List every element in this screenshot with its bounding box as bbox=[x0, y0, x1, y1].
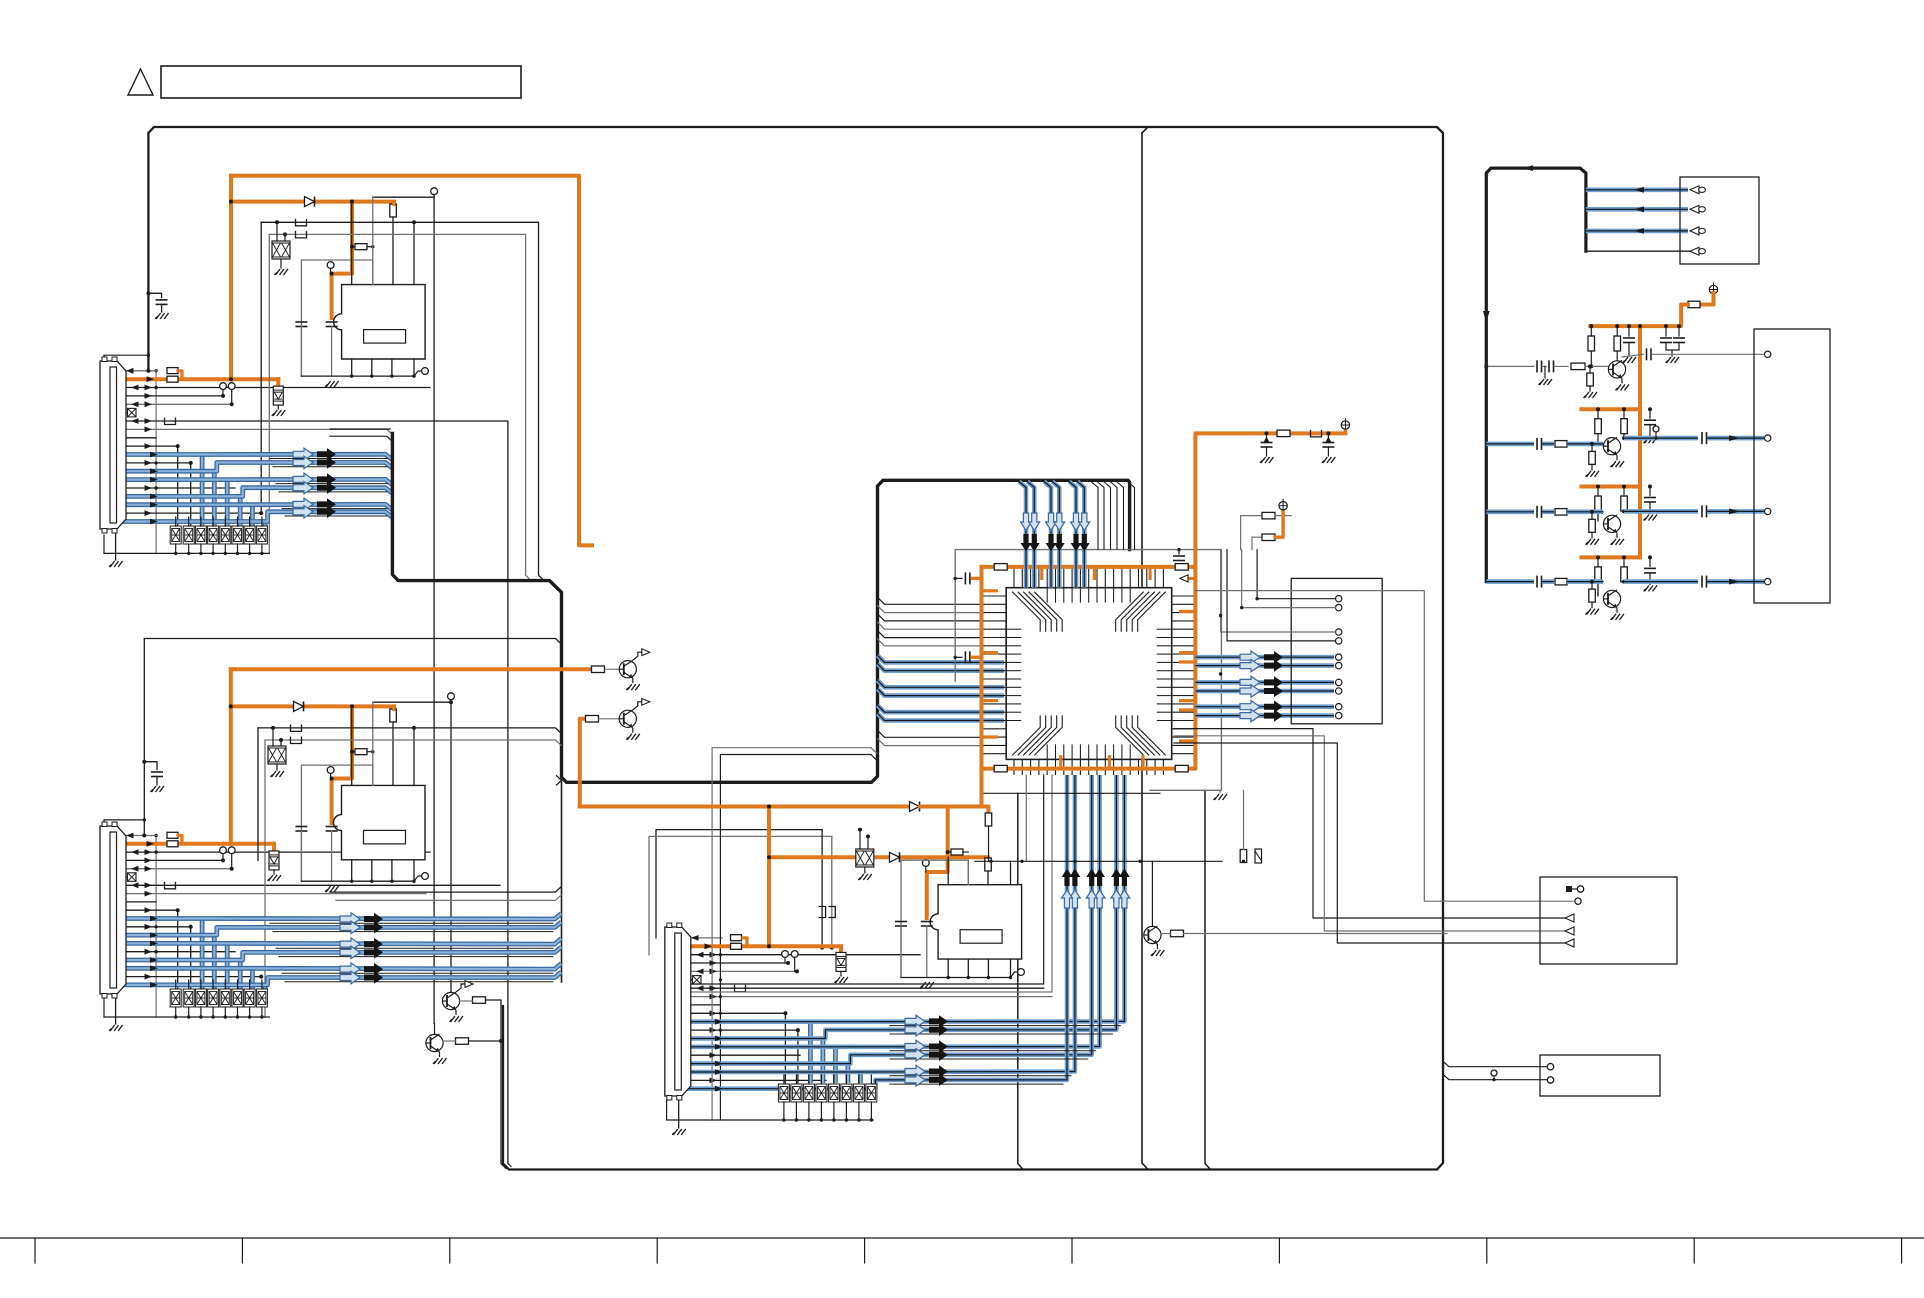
ground U3 bbox=[920, 982, 934, 988]
wire C row7 bbox=[682, 987, 1044, 989]
warning triangle symbol bbox=[128, 69, 153, 95]
protection array element PC4 bbox=[816, 1084, 827, 1102]
connector CN3 pin rows bbox=[677, 936, 680, 939]
U2 pin to orange junction bbox=[351, 706, 353, 785]
resistor R13 bbox=[456, 1038, 469, 1045]
orange wire VCC left drop bbox=[229, 176, 233, 380]
wire B row15 bbox=[117, 951, 236, 953]
bus arrow pair A5 bbox=[293, 498, 336, 510]
stage 2 bias rail bbox=[1582, 407, 1641, 411]
blue bus wire C5 to QFP bbox=[682, 775, 1075, 1072]
ground rail under connector C bbox=[679, 1119, 873, 1121]
protection array element PB1 bbox=[170, 989, 181, 1007]
resistor R11b bbox=[985, 813, 992, 826]
protection array element PB7 bbox=[244, 989, 255, 1007]
wire to R25 bbox=[1241, 515, 1262, 517]
bus arrow pair B5 bbox=[340, 963, 383, 975]
orange wire to IC3 bypass bbox=[927, 807, 948, 919]
blue bus right 1 bbox=[1195, 655, 1334, 660]
bus B2 drop bbox=[264, 740, 266, 1017]
orange wire C row2 run bbox=[743, 944, 841, 948]
ground C15 bbox=[1623, 357, 1637, 363]
orange jumper bbox=[1275, 510, 1283, 537]
note box bbox=[161, 66, 521, 98]
U4 corner pin fan BR bbox=[1116, 715, 1166, 755]
signal run to J3 pin2 bbox=[1174, 736, 1565, 931]
capacitor C19 bbox=[1549, 360, 1554, 372]
capacitor C8 bbox=[921, 922, 933, 927]
blue bus top 1 bbox=[1019, 482, 1026, 588]
wire C row5 bbox=[682, 970, 798, 972]
connector J5 box bbox=[1754, 329, 1830, 603]
resistor R46 bbox=[1595, 567, 1602, 582]
connector J3 pin bbox=[1565, 914, 1574, 922]
wire row10 to surge box1 bbox=[117, 446, 178, 526]
test point TP1 bbox=[327, 262, 334, 269]
harness wire to U4 left pin 8 bbox=[878, 739, 984, 746]
protection array element PC2 bbox=[791, 1084, 802, 1102]
blue drop to box C5 bbox=[833, 1047, 838, 1083]
protection array element PA7 bbox=[244, 526, 255, 544]
bus arrow vertical down bbox=[1029, 513, 1040, 552]
wire B row6 bbox=[117, 876, 128, 878]
bus arrow pair right 5 bbox=[1240, 701, 1283, 713]
resistor R11 bbox=[985, 858, 992, 871]
wire B row4 bbox=[117, 859, 224, 861]
test point TP11 bbox=[922, 860, 929, 867]
resistor R2 bbox=[167, 376, 178, 382]
wire B row5 bbox=[117, 868, 232, 870]
suppressor ground lead bbox=[277, 405, 279, 409]
U2 input frame wire bbox=[301, 765, 372, 881]
wire C row4 bbox=[682, 962, 789, 964]
ground bias stage2 bbox=[1586, 471, 1600, 477]
transistor Q14 bbox=[1603, 590, 1620, 613]
bus arrow vertical C4 bbox=[1086, 869, 1097, 909]
wire R14 to right bbox=[1184, 933, 1448, 935]
ferrite bead FB8 bbox=[828, 907, 835, 918]
U4 top pins bbox=[1014, 567, 1163, 588]
wire B row10 to box1 bbox=[117, 910, 178, 989]
ground stage1 bbox=[1539, 379, 1553, 385]
blue bus top 6 bbox=[1077, 482, 1084, 588]
ferrite bead FB10 bbox=[1311, 430, 1322, 437]
bus arrow pair C6 bbox=[905, 1074, 948, 1086]
harness wire to U4 left pin 6 bbox=[878, 639, 984, 646]
connector CN3 bbox=[665, 923, 691, 1100]
protection array element PB8 bbox=[256, 989, 267, 1007]
wire to R26 bbox=[1252, 536, 1262, 538]
U3 input frame wire bbox=[901, 860, 968, 977]
ruler tick 1 bbox=[34, 1238, 36, 1263]
connector top tab wire B bbox=[104, 819, 144, 821]
bus arrow vertical down bbox=[1079, 513, 1090, 552]
signal wire to J2 pin1 bbox=[1257, 550, 1335, 599]
bus arrow vertical down bbox=[1054, 513, 1065, 552]
signal wire to J2 pin2 bbox=[1242, 550, 1336, 608]
wire row8 into harness bbox=[117, 429, 393, 434]
capacitor C20 bbox=[1647, 348, 1652, 360]
harness blue wire to U4 left pin 3 bbox=[878, 680, 1005, 687]
U1 bottom pin bbox=[413, 359, 415, 376]
ruler tick 7 bbox=[1278, 1238, 1280, 1263]
capacitor C23 bbox=[1644, 498, 1656, 503]
connector CN1 pin rows bbox=[112, 369, 115, 372]
blue drop to box C8 bbox=[871, 1083, 876, 1089]
test point TP14 bbox=[1018, 969, 1025, 976]
test point TP10 bbox=[448, 693, 455, 700]
harness wire to U4 left pin 5 bbox=[878, 631, 984, 638]
outer enclosure border bbox=[148, 127, 1443, 1170]
enclosure divider corner B bbox=[1205, 790, 1211, 1169]
bus companion line bbox=[270, 458, 387, 460]
C2 lower lead bbox=[300, 327, 302, 377]
wire R12 to border bbox=[486, 1000, 507, 1169]
capacitor C30 bbox=[1702, 505, 1707, 517]
Q5 collector up to rail bbox=[1151, 861, 1153, 926]
connector J6 pin2 bbox=[1547, 1077, 1553, 1083]
orange wire B-to-C power run bbox=[580, 805, 909, 809]
U3 bottom pin bbox=[1010, 959, 1012, 977]
orange stub to R3 bbox=[392, 202, 395, 205]
harness line B black2 bbox=[336, 895, 561, 900]
bus line C2 vertical w/ bead bbox=[831, 836, 833, 947]
ground rail under connector B bbox=[104, 1016, 269, 1018]
ground bbox=[272, 410, 286, 416]
block C shield wire 2 bbox=[649, 836, 832, 954]
diode D4 bbox=[910, 802, 920, 812]
connector J2 pins bbox=[1336, 596, 1342, 719]
wire C row8 bbox=[682, 996, 1053, 998]
TP2 stub bbox=[222, 390, 224, 396]
power entry +B1 bbox=[1341, 418, 1349, 429]
harness wire to U4 left pin 1 bbox=[878, 597, 984, 604]
bus arrow pair A1 bbox=[293, 448, 336, 460]
bus arrow pair A2 bbox=[293, 456, 336, 468]
blue drop to surge box 4 bbox=[212, 471, 217, 526]
bus arrow vertical down bbox=[1071, 513, 1082, 552]
blue bus wire C6 to QFP bbox=[682, 775, 1068, 1089]
bias resistor stage2 bbox=[1589, 451, 1596, 464]
connector J3 pins bbox=[1566, 886, 1572, 892]
capacitor C6 bbox=[326, 827, 338, 832]
connector CN1 bbox=[100, 357, 126, 533]
connector J4 box bbox=[1680, 177, 1759, 264]
protection array element PC5 bbox=[828, 1084, 839, 1102]
orange drop to suppressor bbox=[276, 379, 280, 386]
blue bus wire B5 into harness bbox=[117, 964, 562, 970]
resistor R28 bbox=[1255, 849, 1262, 863]
blue bus right 5 bbox=[1195, 704, 1334, 709]
bus companion line bbox=[279, 956, 553, 958]
orange ring left drop bbox=[980, 567, 984, 807]
resistor R40 bbox=[1595, 419, 1602, 434]
protection array element PC8 bbox=[866, 1084, 877, 1102]
harness blue wire to U4 left pin 2 bbox=[878, 664, 1005, 671]
protection array element PC3 bbox=[803, 1084, 814, 1102]
QFP IC U4 body bbox=[1006, 588, 1171, 760]
orange drop to suppressor C bbox=[839, 946, 843, 952]
transistor Q2 bbox=[619, 698, 650, 732]
orange run to R11b bbox=[948, 807, 989, 814]
blue output stage2 bbox=[1624, 436, 1698, 441]
harness merge chevron bbox=[557, 776, 562, 785]
capacitor C13 bbox=[1261, 443, 1273, 448]
harness line B black1 bbox=[330, 887, 561, 892]
connector top tab wire bbox=[104, 354, 148, 356]
bus arrow vertical down bbox=[1021, 513, 1032, 552]
surge suppressor SA6 bbox=[856, 849, 874, 867]
bus line A1 into harness bbox=[261, 222, 544, 580]
resistor R43 bbox=[1595, 496, 1602, 511]
protection array element PA4 bbox=[208, 526, 219, 544]
wire row12 to surge box2 bbox=[117, 463, 191, 526]
U2 bottom pin bbox=[351, 860, 353, 881]
bus arrow pair B2 bbox=[340, 921, 383, 933]
bus arrow vertical C6 bbox=[1062, 869, 1073, 909]
test point TP7 bbox=[220, 847, 227, 854]
bus A1 drop to row18 bbox=[260, 222, 262, 513]
blue drop to box B5 bbox=[225, 943, 230, 989]
transistor Q12 bbox=[1603, 437, 1620, 460]
U1 ground rail bbox=[301, 375, 414, 377]
resistor R44 bbox=[1621, 496, 1628, 511]
blue bus wire B1 into harness bbox=[117, 914, 562, 920]
bus companion line bbox=[890, 1058, 1088, 1060]
capacitor C27 bbox=[1537, 576, 1542, 588]
wire R13 to junction bbox=[469, 1040, 502, 1042]
harness blue wire to U4 left pin 6 bbox=[878, 714, 1005, 721]
U4 bottom rail 1 bbox=[983, 792, 1160, 794]
blue input stage3 bbox=[1486, 509, 1534, 514]
test point TP3 bbox=[228, 383, 235, 390]
protection array element PB4 bbox=[208, 989, 219, 1007]
resistor R9 bbox=[731, 935, 742, 941]
wire B row18 bbox=[117, 976, 262, 978]
orange stub bbox=[392, 706, 395, 709]
blue bus right 4 bbox=[1195, 689, 1334, 694]
wire C row3 bbox=[682, 954, 921, 956]
ferrite bead FB5 bbox=[291, 724, 302, 731]
ferrite bead FB2 bbox=[296, 219, 307, 226]
U2 pin to bus line bbox=[413, 728, 415, 786]
harness blue wire to U4 left pin 4 bbox=[878, 689, 1005, 696]
ground R33b bbox=[1584, 392, 1598, 398]
diode D3 bbox=[890, 852, 900, 862]
harness wire to U4 left pin 2 bbox=[878, 606, 984, 613]
blue output stage3 bbox=[1624, 509, 1698, 514]
blue bus wire B4 into harness bbox=[117, 947, 562, 960]
protection array element PA6 bbox=[232, 526, 243, 544]
U3 ground rail bbox=[901, 977, 1011, 979]
connector CN2 bbox=[100, 822, 126, 998]
orange rail stage1 bbox=[1590, 305, 1688, 327]
ferrite bead FB4 bbox=[165, 882, 176, 889]
blue bus right 2 bbox=[1195, 663, 1334, 668]
bus arrow pair A6 bbox=[293, 506, 336, 518]
harness blue wire to U4 left pin 5 bbox=[878, 705, 1005, 712]
blue bus wire B6 into harness bbox=[117, 972, 562, 985]
protection array element PA5 bbox=[220, 526, 231, 544]
blue bus top 3 bbox=[1044, 482, 1051, 588]
capacitor C10 bbox=[965, 572, 970, 584]
resistor R11c bbox=[948, 851, 951, 853]
protection array element PA1 bbox=[170, 526, 181, 544]
ruler baseline bbox=[0, 1237, 1924, 1239]
bus arrow pair B4 bbox=[340, 946, 383, 958]
wire row4 bbox=[117, 395, 224, 397]
shield vertical wire bbox=[155, 371, 157, 554]
bus companion line bbox=[285, 981, 553, 983]
ground connector C bbox=[672, 1129, 686, 1135]
resistor R48 bbox=[1555, 578, 1567, 585]
bus arrow pair B3 bbox=[340, 938, 383, 950]
test point TP12 bbox=[782, 951, 789, 958]
capacitor C3 bbox=[326, 322, 338, 327]
U3 pin up to rail bbox=[1010, 861, 1012, 884]
bus companion line bbox=[890, 1033, 1112, 1035]
block B shield wire into harness bbox=[144, 639, 561, 645]
transistor Q1 bbox=[619, 649, 650, 683]
signal wire to J2 pin4 bbox=[1227, 550, 1336, 641]
ground connector B bbox=[109, 1025, 123, 1031]
TP3 stub bbox=[231, 390, 233, 405]
orange ring stubs bbox=[982, 567, 1196, 769]
U4 right pins bbox=[1172, 596, 1196, 754]
wire C row18 bbox=[682, 1079, 827, 1081]
U1 bottom pin bbox=[391, 359, 393, 376]
capacitor C18 bbox=[1537, 360, 1542, 372]
connector J6 box bbox=[1540, 1055, 1660, 1096]
resistor R1 bbox=[167, 368, 178, 374]
thick cable top right bbox=[1486, 168, 1586, 581]
U3 bottom pin bbox=[967, 959, 969, 977]
ground C13 bbox=[1260, 457, 1274, 463]
orange wire B left drop bbox=[229, 669, 233, 844]
harness wire to U4 left pin 7 bbox=[878, 730, 984, 737]
orange wire power filter bbox=[1195, 433, 1345, 567]
bus arrow vertical C1 bbox=[1119, 869, 1130, 909]
resistor R6 bbox=[390, 709, 397, 722]
ruler tick 5 bbox=[864, 1238, 866, 1263]
bus arrow pair right 6 bbox=[1240, 709, 1283, 721]
resistor R3 bbox=[390, 204, 397, 217]
orange wire C row2 bbox=[682, 944, 730, 948]
ruler tick 8 bbox=[1486, 1238, 1488, 1263]
blue bus wire B2 into harness bbox=[117, 922, 562, 935]
blue drop to box C4 bbox=[821, 1039, 826, 1083]
ruler tick 4 bbox=[656, 1238, 658, 1263]
blue bus right 3 bbox=[1195, 680, 1334, 685]
resistor R20 ring TL bbox=[994, 564, 1007, 571]
block B left wire bbox=[143, 639, 145, 836]
resistor R41 bbox=[1621, 419, 1628, 434]
connector J4 pin bbox=[1690, 186, 1699, 194]
U4 bottom rail 2 bbox=[975, 860, 1222, 862]
bus companion line bbox=[890, 1075, 1071, 1077]
blue bus wire B3 into harness bbox=[117, 939, 562, 945]
IC U2 regulator bbox=[334, 785, 426, 859]
bus arrow pair A3 bbox=[293, 473, 336, 485]
protection array element PC1 bbox=[778, 1084, 789, 1102]
U4 corner pin fan TR bbox=[1116, 592, 1166, 632]
blue bus right 6 bbox=[1195, 713, 1334, 718]
capacitor C11 bbox=[965, 651, 970, 663]
stage1 input wire bbox=[1486, 365, 1534, 367]
orange wire to IC bypass bbox=[332, 202, 352, 318]
surge absorber SA5 bbox=[836, 952, 846, 971]
blue line J4-3 bbox=[1586, 229, 1688, 234]
thermistor on B row6 bbox=[128, 873, 137, 882]
test point TP9 bbox=[422, 873, 429, 880]
ground bbox=[835, 977, 849, 983]
blue input stage2 bbox=[1486, 442, 1534, 447]
U1 bottom pin bbox=[371, 359, 373, 376]
blue drop to box B3 bbox=[200, 919, 205, 990]
ground stage3 bbox=[1644, 515, 1658, 521]
orange wire B post diode bbox=[305, 704, 394, 708]
wire row15 bbox=[117, 487, 236, 489]
harness line C1 to QFP bbox=[682, 775, 1044, 984]
bus companion line bbox=[279, 491, 387, 493]
bus arrow pair right 4 bbox=[1240, 685, 1283, 697]
blue drop to surge box 8 bbox=[263, 522, 268, 527]
test point stage2 bbox=[1653, 426, 1659, 432]
ferrite bead FB6 bbox=[291, 737, 302, 744]
diode D1 bbox=[305, 197, 315, 207]
capacitor C17 bbox=[1673, 338, 1685, 343]
protection array element PA2 bbox=[183, 526, 194, 544]
ferrite bead FB7 bbox=[819, 907, 826, 918]
harness line C2 to QFP bbox=[682, 775, 1053, 992]
orange wire B row2 bbox=[117, 842, 168, 846]
resistor R32 bbox=[1614, 336, 1621, 351]
wire R8 to Q2 bbox=[599, 718, 620, 720]
transistor Q3 bbox=[442, 981, 473, 1015]
connector J3 box bbox=[1540, 877, 1677, 964]
ground bbox=[155, 313, 169, 319]
capacitor C16 bbox=[1660, 338, 1672, 343]
surge absorber SA3 bbox=[269, 851, 279, 870]
capacitor C5 bbox=[295, 827, 307, 832]
U4 corner pin fan BL bbox=[1012, 715, 1062, 755]
bus companion line bbox=[276, 483, 387, 485]
stage 3 bias rail bbox=[1582, 485, 1641, 489]
U1 pin to bus line bbox=[413, 222, 415, 284]
surge absorber SA1 bbox=[273, 386, 283, 405]
bus arrow pair B6 bbox=[340, 971, 383, 983]
wire row18 bbox=[117, 512, 262, 514]
wire to J6 pin2 bbox=[1444, 1075, 1547, 1080]
blue drop to box C7 bbox=[858, 1072, 863, 1083]
resistor R22 ring BL bbox=[994, 765, 1007, 772]
bus companion line bbox=[270, 922, 553, 924]
wire cap to ground bbox=[161, 304, 163, 312]
resistor R5 bbox=[167, 841, 178, 847]
orange wire to Q2 base bbox=[580, 719, 586, 807]
test point TP6 bbox=[327, 767, 334, 774]
resistor R12 bbox=[473, 997, 486, 1004]
shield vertical wire B bbox=[155, 836, 157, 1018]
blue bus top 2 bbox=[1027, 482, 1034, 588]
resistor R45 bbox=[1555, 509, 1567, 515]
ground stage4 bbox=[1644, 585, 1658, 591]
bus arrow pair C3 bbox=[905, 1040, 948, 1052]
wire U2 to TP10 bbox=[373, 701, 451, 703]
signal run to J3 pin1 bbox=[1174, 729, 1565, 918]
blue line J4-1 bbox=[1586, 188, 1688, 193]
blue drop to box B6 bbox=[238, 960, 243, 989]
